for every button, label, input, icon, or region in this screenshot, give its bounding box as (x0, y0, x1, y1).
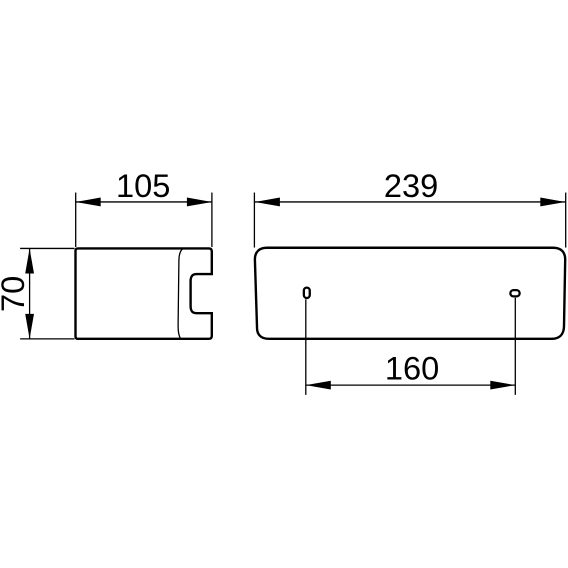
svg-text:239: 239 (384, 167, 438, 204)
svg-text:160: 160 (385, 350, 439, 387)
svg-text:70: 70 (0, 276, 31, 312)
svg-text:105: 105 (116, 167, 170, 204)
